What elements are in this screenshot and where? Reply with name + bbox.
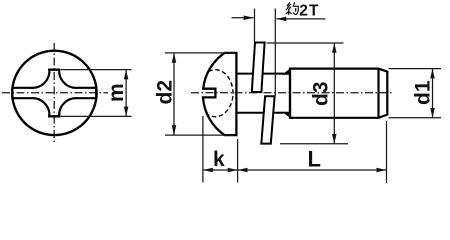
svg-text:L: L — [308, 147, 321, 172]
svg-text:k: k — [213, 148, 225, 171]
svg-text:d3: d3 — [310, 81, 333, 106]
svg-text:d1: d1 — [412, 80, 435, 105]
svg-text:2T: 2T — [299, 2, 319, 19]
svg-text:d2: d2 — [154, 80, 177, 105]
svg-text:m: m — [105, 83, 128, 102]
